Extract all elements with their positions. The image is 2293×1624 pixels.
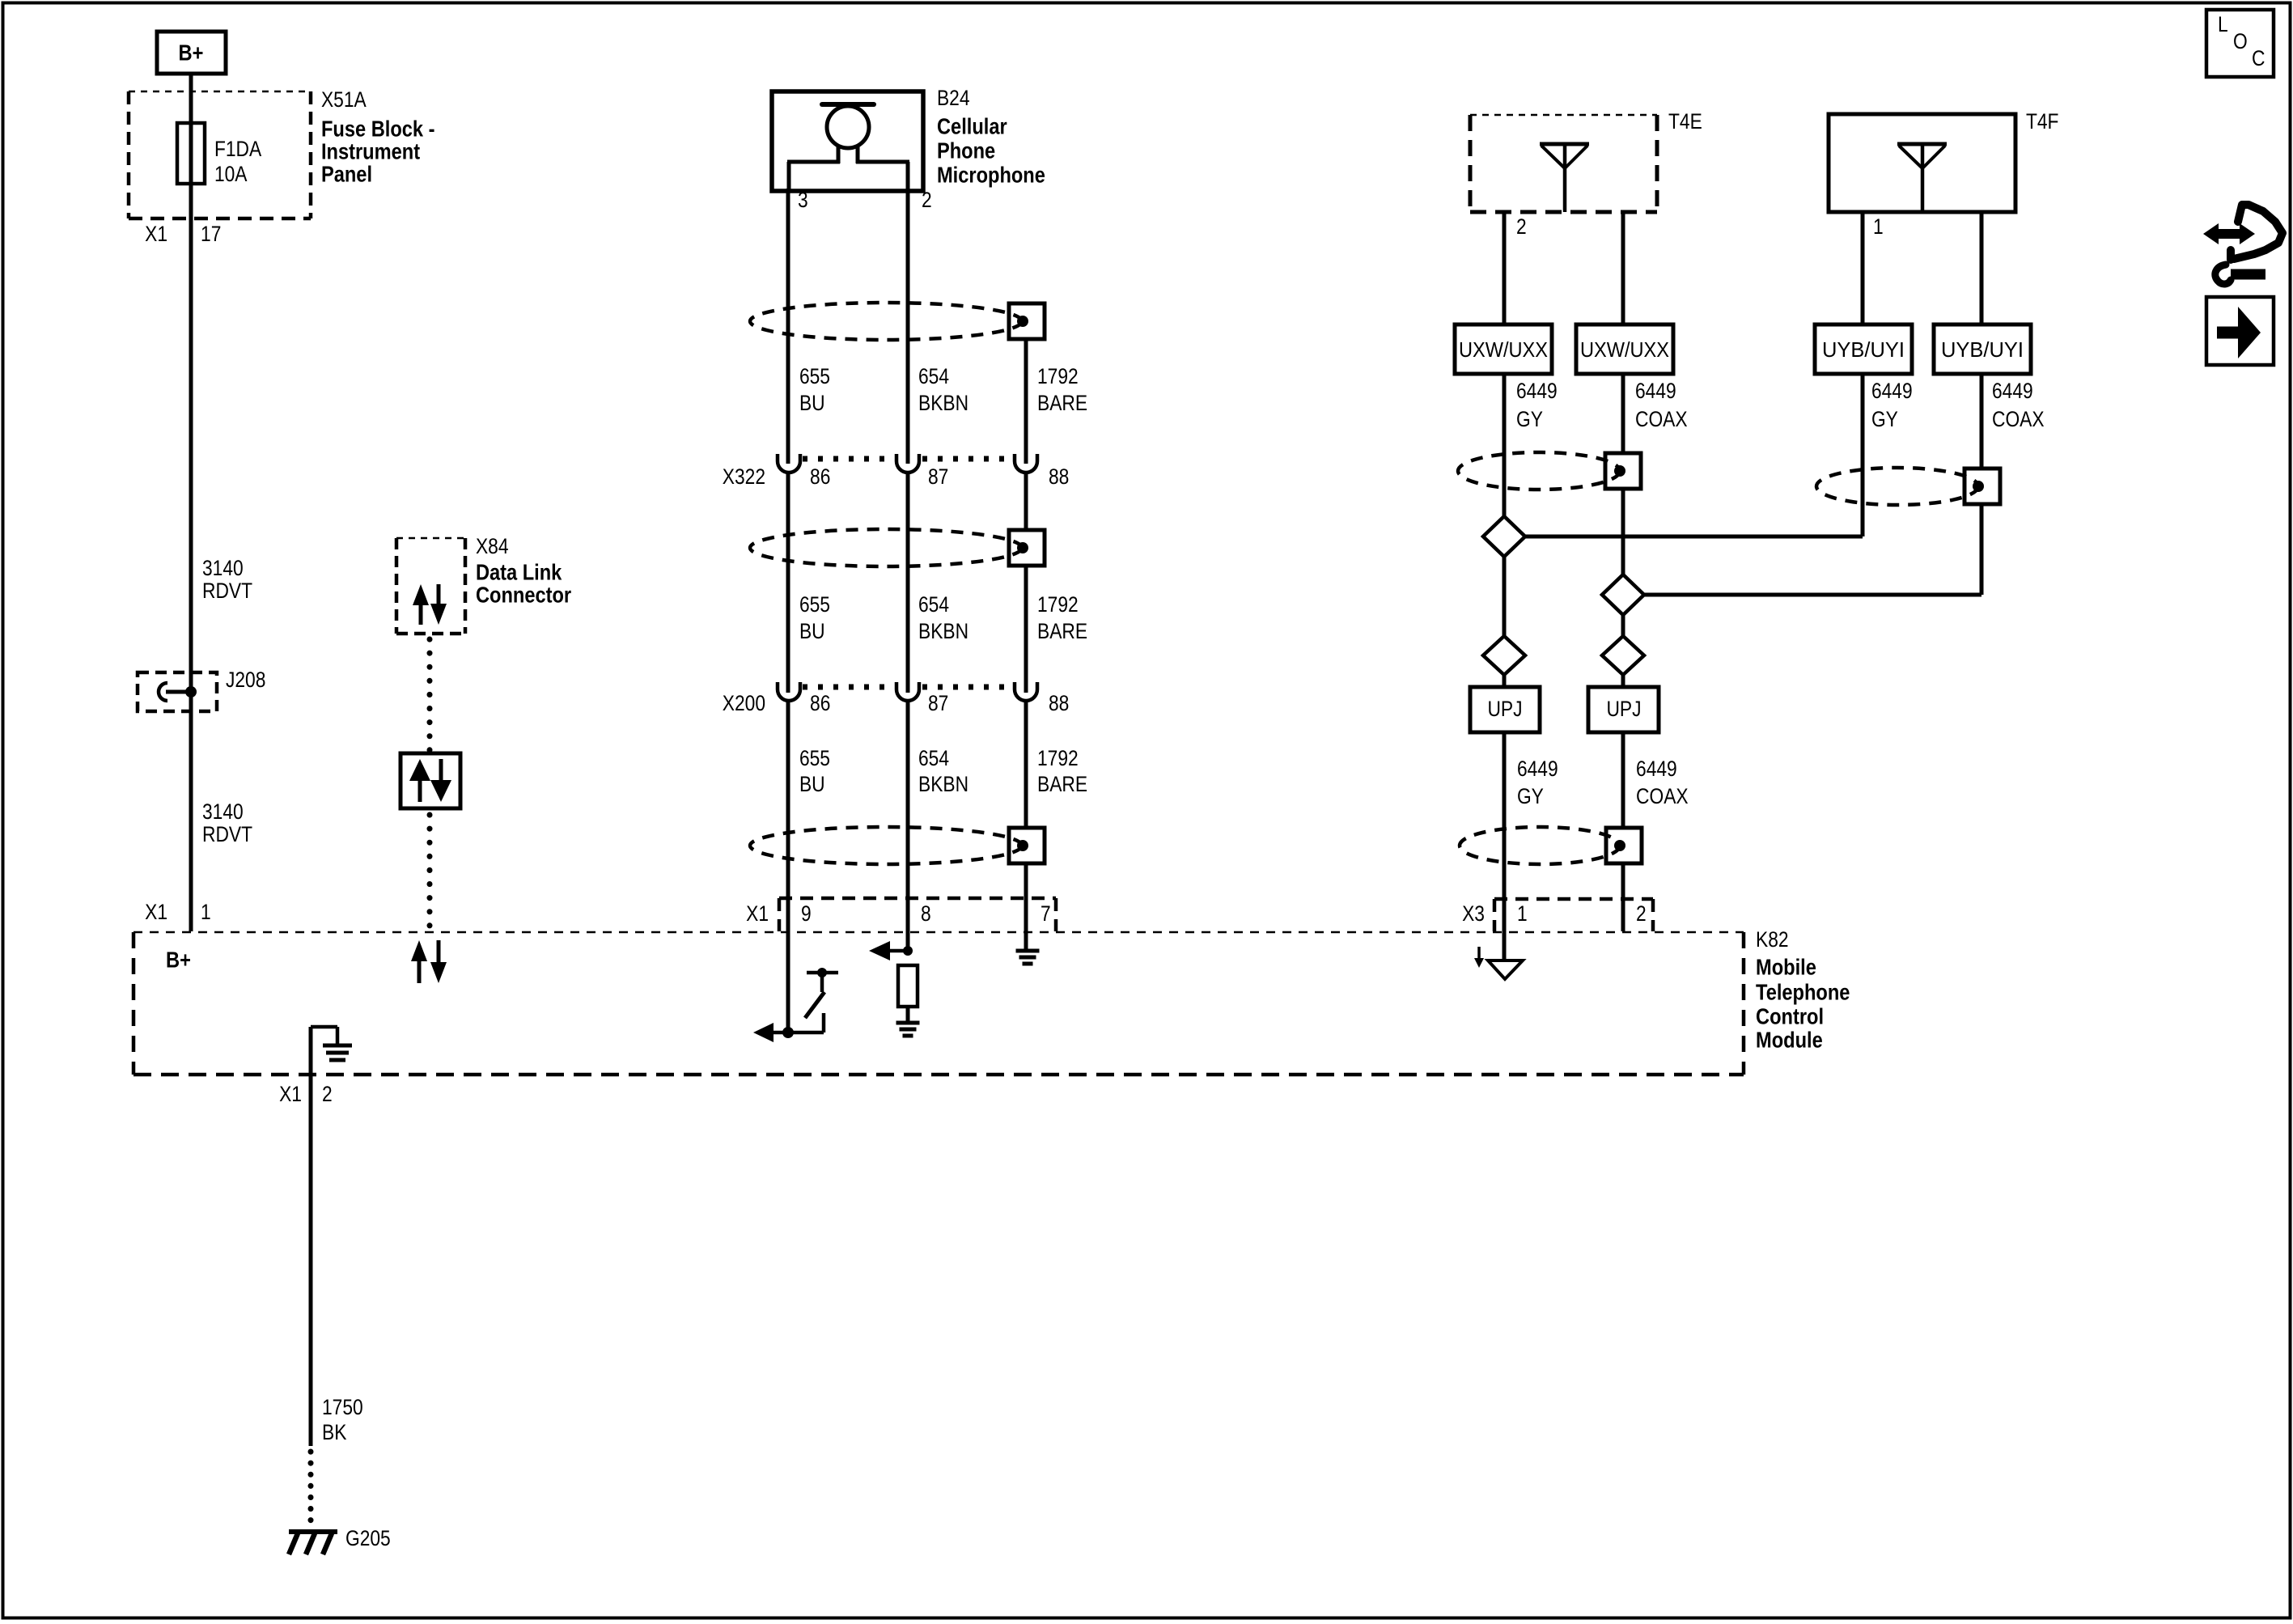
svg-text:654: 654 xyxy=(918,748,949,771)
svg-text:BKBN: BKBN xyxy=(918,621,968,644)
svg-text:BKBN: BKBN xyxy=(918,392,968,416)
svg-text:X3: X3 xyxy=(1462,903,1485,926)
svg-text:Phone: Phone xyxy=(937,139,995,163)
svg-text:Cellular: Cellular xyxy=(937,115,1007,139)
svg-text:88: 88 xyxy=(1049,466,1069,490)
svg-text:3140: 3140 xyxy=(202,801,244,825)
svg-text:T4F: T4F xyxy=(2026,111,2059,134)
svg-text:6449: 6449 xyxy=(1992,380,2033,404)
svg-text:2: 2 xyxy=(1636,903,1647,926)
svg-text:6449: 6449 xyxy=(1871,380,1913,404)
svg-text:X200: X200 xyxy=(723,693,765,716)
svg-text:Microphone: Microphone xyxy=(937,163,1045,188)
svg-text:Control: Control xyxy=(1756,1005,1824,1029)
svg-text:B24: B24 xyxy=(937,87,970,111)
svg-text:6449: 6449 xyxy=(1517,758,1558,782)
svg-text:Connector: Connector xyxy=(476,583,571,608)
svg-text:3: 3 xyxy=(798,189,808,213)
svg-text:UXW/UXX: UXW/UXX xyxy=(1580,337,1669,362)
svg-text:BKBN: BKBN xyxy=(918,774,968,797)
svg-text:2: 2 xyxy=(1516,216,1527,240)
svg-text:UYB/UYI: UYB/UYI xyxy=(1822,337,1905,362)
svg-text:1792: 1792 xyxy=(1037,748,1079,771)
svg-text:87: 87 xyxy=(928,466,948,490)
svg-text:Telephone: Telephone xyxy=(1756,981,1850,1005)
svg-text:UYB/UYI: UYB/UYI xyxy=(1941,337,2024,362)
svg-text:X322: X322 xyxy=(723,466,765,490)
svg-text:1792: 1792 xyxy=(1037,366,1079,389)
svg-text:654: 654 xyxy=(918,594,949,617)
svg-text:UPJ: UPJ xyxy=(1487,698,1522,722)
svg-text:1: 1 xyxy=(201,901,211,925)
svg-text:RDVT: RDVT xyxy=(202,824,252,847)
svg-text:1: 1 xyxy=(1517,903,1528,926)
svg-text:BU: BU xyxy=(799,392,825,416)
svg-text:8: 8 xyxy=(921,903,931,926)
svg-text:655: 655 xyxy=(799,594,830,617)
svg-text:86: 86 xyxy=(810,693,830,716)
svg-text:654: 654 xyxy=(918,366,949,389)
svg-text:6449: 6449 xyxy=(1636,758,1677,782)
svg-text:6449: 6449 xyxy=(1516,380,1558,404)
svg-text:BARE: BARE xyxy=(1037,392,1087,416)
svg-text:Data Link: Data Link xyxy=(476,561,562,585)
svg-text:88: 88 xyxy=(1049,693,1069,716)
svg-text:GY: GY xyxy=(1516,409,1543,432)
svg-text:X1: X1 xyxy=(279,1083,302,1107)
svg-text:1792: 1792 xyxy=(1037,594,1079,617)
svg-text:COAX: COAX xyxy=(1635,409,1688,432)
svg-text:GY: GY xyxy=(1871,409,1898,432)
svg-text:10A: 10A xyxy=(214,163,248,187)
svg-text:F1DA: F1DA xyxy=(214,138,262,162)
svg-text:BU: BU xyxy=(799,621,825,644)
svg-text:Fuse Block -: Fuse Block - xyxy=(321,117,435,142)
svg-text:COAX: COAX xyxy=(1992,409,2045,432)
svg-text:655: 655 xyxy=(799,748,830,771)
svg-text:COAX: COAX xyxy=(1636,786,1689,809)
svg-text:B+: B+ xyxy=(179,41,204,66)
svg-text:2: 2 xyxy=(322,1083,333,1107)
svg-text:UPJ: UPJ xyxy=(1606,698,1641,722)
svg-text:655: 655 xyxy=(799,366,830,389)
svg-text:87: 87 xyxy=(928,693,948,716)
svg-text:UXW/UXX: UXW/UXX xyxy=(1459,337,1548,362)
svg-text:BK: BK xyxy=(322,1422,347,1445)
svg-text:6449: 6449 xyxy=(1635,380,1676,404)
svg-text:BU: BU xyxy=(799,774,825,797)
svg-text:K82: K82 xyxy=(1756,929,1789,952)
svg-text:J208: J208 xyxy=(226,669,265,693)
svg-text:Instrument: Instrument xyxy=(321,140,421,164)
svg-text:2: 2 xyxy=(922,189,932,213)
svg-text:X1: X1 xyxy=(746,903,769,926)
svg-text:17: 17 xyxy=(201,223,221,247)
svg-text:T4E: T4E xyxy=(1668,111,1702,134)
svg-text:9: 9 xyxy=(801,903,812,926)
svg-text:G205: G205 xyxy=(345,1528,391,1551)
svg-text:X1: X1 xyxy=(145,901,167,925)
svg-text:Panel: Panel xyxy=(321,163,372,187)
svg-text:BARE: BARE xyxy=(1037,621,1087,644)
svg-text:1: 1 xyxy=(1873,216,1884,240)
svg-text:B+: B+ xyxy=(166,948,191,973)
svg-text:3140: 3140 xyxy=(202,558,244,581)
svg-text:O: O xyxy=(2233,31,2248,54)
svg-text:L: L xyxy=(2218,14,2228,37)
svg-text:7: 7 xyxy=(1041,903,1051,926)
svg-text:BARE: BARE xyxy=(1037,774,1087,797)
svg-text:RDVT: RDVT xyxy=(202,580,252,604)
svg-text:X51A: X51A xyxy=(321,89,367,112)
svg-text:GY: GY xyxy=(1517,786,1544,809)
svg-text:X84: X84 xyxy=(476,536,509,559)
svg-text:Module: Module xyxy=(1756,1028,1823,1053)
svg-text:C: C xyxy=(2252,48,2265,71)
svg-text:86: 86 xyxy=(810,466,830,490)
svg-text:X1: X1 xyxy=(145,223,167,247)
svg-text:1750: 1750 xyxy=(322,1397,363,1420)
svg-text:Mobile: Mobile xyxy=(1756,956,1816,980)
